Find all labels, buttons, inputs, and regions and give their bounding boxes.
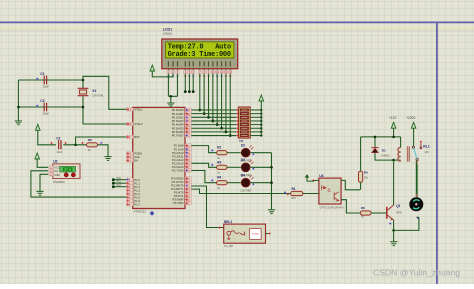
pin 19 XTAL1 of U1 <box>127 108 133 111</box>
LCD1 pin name ticks <box>168 61 169 66</box>
svg-text:P12: P12 <box>117 184 122 187</box>
pin marker BEL1 output <box>268 232 270 234</box>
svg-text:P3.4/T0: P3.4/T0 <box>174 191 184 195</box>
junction VCC rail row 0 <box>260 109 262 111</box>
resistor R4 <box>217 181 228 185</box>
pin 33 P0.6/AD6 of U1 <box>185 130 191 133</box>
svg-text:P2.3/A11: P2.3/A11 <box>172 154 184 158</box>
svg-text:P1.2: P1.2 <box>134 185 140 189</box>
svg-text:P0.0/AD0: P0.0/AD0 <box>172 108 184 112</box>
wire relay coil bottom <box>394 159 401 161</box>
ground <box>390 242 397 246</box>
wire LCD D3 to P0.3 <box>212 74 214 121</box>
pin marker R3 <box>211 164 213 166</box>
junction D0/P0.0 <box>198 109 201 112</box>
ground <box>104 157 111 161</box>
wire R6 to Q1 base <box>371 212 386 214</box>
ground <box>167 103 174 107</box>
svg-text:R3: R3 <box>217 160 221 164</box>
wire U2 GND pin to ground <box>40 174 48 191</box>
junction D2/P0.2 <box>207 116 210 119</box>
wire Q1 emitter down <box>393 220 395 231</box>
pin 3 VEE of LCD1 <box>176 70 179 73</box>
pin 6 P1.5 of U1 <box>127 196 133 199</box>
wire LCD D6 to P0.6 <box>225 74 227 132</box>
wire relay switch to motor <box>416 161 418 165</box>
svg-text:P0.3/AD3: P0.3/AD3 <box>172 119 184 123</box>
wire VCC to U2 VCC pin <box>37 159 48 167</box>
wire DQ net U2 to U1 P1.5 <box>31 171 127 197</box>
wire motor bottom to node <box>394 217 419 230</box>
wire U4 pin 1 stub <box>314 179 319 181</box>
motor top pin stub <box>415 194 417 198</box>
wire R3 to D3 <box>227 166 241 168</box>
svg-text:P2.0/A8: P2.0/A8 <box>174 144 184 148</box>
LCD display LCD1 LM016L <box>162 39 238 69</box>
svg-text:LM016L: LM016L <box>163 31 174 35</box>
svg-text:RST: RST <box>134 135 140 139</box>
power +5V terminal for U2 <box>35 153 40 159</box>
wire U5 pin to VCC rail row 4 <box>250 124 261 126</box>
wire +12V rail <box>361 136 401 138</box>
svg-text:10k: 10k <box>364 176 369 180</box>
pin marker C2 <box>36 105 38 107</box>
pin 11 P3.1/TXD of U1 <box>185 180 191 183</box>
svg-text:ALE: ALE <box>134 155 139 159</box>
wire C1 to crystal top net <box>18 79 83 81</box>
terminal P11 <box>115 182 127 184</box>
svg-text:U2: U2 <box>53 160 57 164</box>
wire D2 cathode to rail <box>251 152 272 154</box>
terminal P10 <box>115 179 127 181</box>
junction D1/P0.1 <box>203 112 206 115</box>
svg-text:R2: R2 <box>217 146 221 150</box>
pin 10 D3 of LCD1 <box>211 70 214 73</box>
ground <box>36 191 43 195</box>
pin 5 RW of LCD1 <box>188 70 191 73</box>
svg-text:P1.0: P1.0 <box>134 178 140 182</box>
svg-text:XTAL2: XTAL2 <box>134 122 143 126</box>
wire motor top to relay switch <box>415 161 417 196</box>
pin 27 P2.6/A14 of U1 <box>185 165 191 168</box>
svg-text:EA: EA <box>134 159 138 163</box>
svg-text:R8: R8 <box>88 138 92 142</box>
pin marker motor bottom <box>417 217 419 219</box>
wire LCD RS RW E stubs <box>185 74 193 92</box>
wire RST net to U1 pin 9 <box>76 137 127 145</box>
junction D1 cathode <box>374 136 377 139</box>
wire rail to R9 <box>360 137 362 171</box>
ground <box>268 210 275 214</box>
pin 11 D4 of LCD1 <box>216 70 219 73</box>
wire U1 P3.2 to buzzer BEL1 <box>191 186 223 228</box>
svg-text:P0.1/AD1: P0.1/AD1 <box>172 112 184 116</box>
pin 36 P0.3/AD3 of U1 <box>185 119 191 122</box>
transistor Q1 <box>386 207 388 219</box>
pin 4 RS of LCD1 <box>184 70 187 73</box>
svg-text:CRYSTAL: CRYSTAL <box>92 94 104 98</box>
origin marker U1 <box>150 211 155 216</box>
LED D2 <box>241 148 250 157</box>
svg-text:PL_NM: PL_NM <box>224 244 233 248</box>
ground <box>15 121 22 125</box>
pin 1 VSS of LCD1 <box>167 70 170 73</box>
pin 9 D2 of LCD1 <box>207 70 210 73</box>
pin marker C1 <box>36 78 38 80</box>
junction +12V rail <box>392 136 395 139</box>
svg-text:30pF: 30pF <box>43 111 50 115</box>
wire LCD D1 to P0.1 <box>203 74 205 114</box>
pin 18 XTAL2 of U1 <box>127 122 133 125</box>
wire U5 pin to VCC rail row 5 <box>250 127 261 129</box>
wire U1 P3.3 to R1 <box>191 189 290 193</box>
node E <box>192 90 195 93</box>
pin marker R4 <box>211 179 213 181</box>
temperature sensor U2 DS18B20 <box>53 164 80 179</box>
pin 16 P3.6/WR of U1 <box>185 198 191 201</box>
wire +12V to rail <box>393 128 395 137</box>
wire D4 cathode to rail <box>251 182 272 184</box>
pin 31 EA of U1 <box>127 159 133 162</box>
junction D4 rail <box>270 181 273 184</box>
wire P0.5 bus line <box>191 127 236 129</box>
svg-text:P1.4: P1.4 <box>134 192 140 196</box>
svg-text:P3.6/WR: P3.6/WR <box>172 198 183 202</box>
resistor R3 <box>217 165 228 169</box>
pin marker BEL1 input <box>218 226 220 228</box>
wire LCD VDD to +5V <box>152 71 173 77</box>
wire U1 port pin to R2 <box>191 146 216 153</box>
wire Q1 collector to coil node <box>393 160 395 205</box>
svg-text:30pF: 30pF <box>43 85 50 89</box>
wire R8 to ground <box>98 145 109 156</box>
junction D5/P0.5 <box>220 127 223 130</box>
wire U1 port pin to R4 <box>191 171 216 183</box>
power +5V terminal for U5 <box>259 95 264 101</box>
wire U5 pin to VCC rail row 3 <box>250 120 261 122</box>
wire R2 to D2 <box>227 152 241 154</box>
svg-text:U5: U5 <box>239 139 243 143</box>
svg-text:P3.5/T1: P3.5/T1 <box>174 194 184 198</box>
node RW <box>188 90 191 93</box>
pin 34 P0.5/AD5 of U1 <box>185 127 191 130</box>
pin 2 P1.1 of U1 <box>127 182 133 185</box>
svg-text:1N4001: 1N4001 <box>381 155 390 158</box>
svg-text:U4: U4 <box>319 174 323 178</box>
svg-text:27.0: 27.0 <box>64 169 71 172</box>
junction emitter/motor node <box>392 229 395 232</box>
power +12V terminal <box>391 122 396 128</box>
junction VCC rail row 1 <box>260 113 262 115</box>
crystal X1 <box>78 88 89 95</box>
wire crystal pins <box>82 80 84 107</box>
wire P0.6 bus line <box>191 131 236 133</box>
svg-text:D2: D2 <box>241 143 245 147</box>
junction D3 rail <box>270 166 273 169</box>
junction VCC rail row 3 <box>260 120 262 122</box>
wire LCD D2 to P0.2 <box>208 74 210 118</box>
junction crystal top <box>82 79 85 82</box>
motor fan load <box>409 197 423 211</box>
svg-text:P2.5/A13: P2.5/A13 <box>172 161 184 165</box>
wire VCC rail of U5 <box>260 110 262 136</box>
svg-text:P2.6/A14: P2.6/A14 <box>172 165 184 169</box>
svg-text:LED-RED: LED-RED <box>240 189 251 192</box>
wire motor bottom stub <box>416 216 419 218</box>
resistor pack U5 RESPACK-8 <box>238 107 250 138</box>
wire LCD D0 to P0.0 <box>199 74 201 110</box>
pin 13 P3.3/INT1 of U1 <box>185 187 191 190</box>
pin 12 P3.2/INT0 of U1 <box>185 184 191 187</box>
svg-text:SOUND: SOUND <box>252 234 259 236</box>
pin 37 P0.2/AD2 of U1 <box>185 116 191 119</box>
LED D4 <box>241 178 250 187</box>
resistor R2 <box>217 151 228 155</box>
optocoupler U4 <box>319 178 341 204</box>
svg-text:P3.0/RXD: P3.0/RXD <box>171 177 183 181</box>
capacitor C2 <box>44 103 46 112</box>
svg-text:CSDN @Yulin_zhuang: CSDN @Yulin_zhuang <box>373 268 460 278</box>
resistor R6 <box>360 211 371 215</box>
wire P0.3 bus line <box>191 120 236 122</box>
wire R4 to D4 <box>227 182 241 184</box>
wire D3 cathode to rail <box>251 166 272 168</box>
node RS <box>184 90 187 93</box>
svg-text:P0.6/AD6: P0.6/AD6 <box>172 130 184 134</box>
svg-text:C1: C1 <box>40 72 44 76</box>
junction VCC rail row 2 <box>260 116 262 118</box>
pin 2 VDD of LCD1 <box>171 70 174 73</box>
svg-text:P2.7/A15: P2.7/A15 <box>172 169 184 173</box>
resistor R8 <box>87 143 98 147</box>
svg-text:P2.2/A10: P2.2/A10 <box>172 151 184 155</box>
svg-text:P3.7/RD: P3.7/RD <box>173 201 183 205</box>
svg-text:10uF: 10uF <box>56 150 63 154</box>
wire LCD D5 to P0.5 <box>221 74 223 129</box>
svg-text:200: 200 <box>291 196 296 200</box>
wire U4 emitter to R6 <box>341 200 360 213</box>
wire to ground <box>170 96 172 102</box>
power +220V terminal <box>411 122 416 128</box>
pin marker D2 <box>252 153 254 155</box>
pin 9 RST of U1 <box>127 135 133 138</box>
svg-text:P2.4/A12: P2.4/A12 <box>172 158 184 162</box>
pin 23 P2.2/A10 of U1 <box>185 151 191 154</box>
svg-text:P3.2/INT0: P3.2/INT0 <box>171 184 184 188</box>
svg-text:C3: C3 <box>56 137 60 141</box>
wire U5 pin to VCC rail row 1 <box>250 113 261 115</box>
pin 6 E of LCD1 <box>192 70 195 73</box>
svg-text:VCC: VCC <box>54 167 59 170</box>
wire C3 to R8 <box>63 144 86 146</box>
wire P0.4 bus line <box>191 124 236 126</box>
capacitor C1 <box>44 76 46 85</box>
wire VCC rail to +5V terminal <box>260 101 262 110</box>
svg-text:R6: R6 <box>361 206 365 210</box>
wire node to ground <box>393 230 395 241</box>
wire P0.1 bus line <box>191 113 236 115</box>
wire LCD VSS and VEE to ground <box>168 74 177 97</box>
svg-text:Grade:3 Time:000: Grade:3 Time:000 <box>168 51 231 59</box>
pin 22 P2.1/A9 of U1 <box>185 147 191 150</box>
junction VCC rail row 5 <box>260 127 262 129</box>
pin 28 P2.7/A15 of U1 <box>185 169 191 172</box>
svg-text:12V: 12V <box>424 150 429 154</box>
wire LCD D4 to P0.4 <box>216 74 218 125</box>
junction D6/P0.6 <box>225 131 228 134</box>
wire XTAL1 net <box>83 76 127 109</box>
wire R1 to U4 LED <box>303 193 319 195</box>
svg-text:C2: C2 <box>40 99 44 103</box>
pin 25 P2.4/A12 of U1 <box>185 158 191 161</box>
pin marker D4 <box>252 183 254 185</box>
svg-text:P1.1: P1.1 <box>134 181 140 185</box>
wire D1 anode to coil node <box>375 153 394 160</box>
resistor R9 <box>359 171 363 182</box>
junction left rail C2 <box>17 106 20 109</box>
pin 8 D1 of LCD1 <box>203 70 206 73</box>
pin 3 P1.2 of U1 <box>127 185 133 188</box>
wire U1 port pin to R3 <box>191 163 216 167</box>
junction VSS/VEE ground node <box>170 95 173 98</box>
svg-text:P1.6: P1.6 <box>134 199 140 203</box>
svg-text:+12V: +12V <box>389 116 397 120</box>
wire R9 bottom <box>360 182 362 189</box>
diode D1 <box>371 147 378 149</box>
junction D3/P0.3 <box>211 120 214 123</box>
wire XTAL2 net <box>83 107 127 124</box>
svg-text:P1.5: P1.5 <box>134 195 140 199</box>
svg-text:P3.3/INT1: P3.3/INT1 <box>171 187 184 191</box>
svg-text:Q1: Q1 <box>396 204 400 208</box>
svg-text:RL1: RL1 <box>423 145 430 149</box>
pin markers reset circuit <box>50 142 52 144</box>
pin 1 P1.0 of U1 <box>127 178 133 181</box>
junction D4/P0.4 <box>216 123 219 126</box>
wire LED cathode rail to ground <box>271 153 273 210</box>
svg-text:P3.1/TXD: P3.1/TXD <box>172 180 184 184</box>
pin marker R2 <box>211 149 213 151</box>
svg-text:X1: X1 <box>92 89 96 93</box>
wire +220V to relay common <box>413 128 415 146</box>
pin 35 P0.4/AD4 of U1 <box>185 123 191 126</box>
wire rail to relay coil top <box>400 137 402 148</box>
svg-text:P2.1/A9: P2.1/A9 <box>174 147 184 151</box>
pin 17 P3.7/RD of U1 <box>185 201 191 204</box>
buzzer BEL1 <box>224 224 266 243</box>
pin marker Q1 emitter <box>389 223 391 225</box>
pin 5 P1.4 of U1 <box>127 192 133 195</box>
svg-text:+220V: +220V <box>406 116 416 120</box>
pin 15 P3.5/T1 of U1 <box>185 194 191 197</box>
svg-text:P0.2/AD2: P0.2/AD2 <box>172 115 184 119</box>
pin 13 D6 of LCD1 <box>224 70 227 73</box>
pin 26 P2.5/A13 of U1 <box>185 162 191 165</box>
svg-text:DS18B20: DS18B20 <box>53 180 65 184</box>
svg-text:R1: R1 <box>292 187 296 191</box>
capacitor C3 <box>59 140 61 149</box>
power +5V terminal for LCD VDD <box>150 65 155 71</box>
wire P0.2 bus line <box>191 116 236 118</box>
svg-text:P1.3: P1.3 <box>134 188 140 192</box>
svg-text:D1: D1 <box>382 149 386 153</box>
pin 8 P1.7 of U1 <box>127 203 133 206</box>
pin numbers U2 1-3 <box>49 166 53 169</box>
pin marker D3 <box>252 168 254 170</box>
junction crystal bottom <box>82 106 85 109</box>
svg-text:OPTOCOUPLER-NPN: OPTOCOUPLER-NPN <box>319 206 343 209</box>
wire LCD D7 to P0.7 <box>229 74 231 136</box>
wire U5 pin to VCC rail row 2 <box>250 116 261 118</box>
pin marker RL1 NO contact <box>420 141 422 143</box>
pin 10 P3.0/RXD of U1 <box>185 177 191 180</box>
svg-text:P0.5/AD5: P0.5/AD5 <box>172 126 184 130</box>
svg-text:P1.7: P1.7 <box>134 202 140 206</box>
wire U5 pin to VCC rail row 0 <box>250 109 261 111</box>
pin 4 P1.3 of U1 <box>127 189 133 192</box>
relay RL1 <box>398 147 401 161</box>
wire VCC to C3 <box>38 130 56 145</box>
junction D7/P0.7 <box>229 134 232 137</box>
junction VCC rail row 4 <box>260 123 262 125</box>
svg-text:R4: R4 <box>217 176 221 180</box>
svg-text:R9: R9 <box>364 170 368 174</box>
junction VCC rail row 6 <box>260 131 262 133</box>
pin 14 P3.4/T0 of U1 <box>185 191 191 194</box>
pin 30 ALE of U1 <box>127 155 133 158</box>
wire P0.0 bus line <box>191 109 236 111</box>
pin 14 D7 of LCD1 <box>229 70 232 73</box>
svg-text:BEL1: BEL1 <box>224 220 232 224</box>
pin 24 P2.3/A11 of U1 <box>185 155 191 158</box>
svg-text:NPN: NPN <box>396 210 402 214</box>
pin 29 PSEN of U1 <box>127 152 133 155</box>
svg-text:GND: GND <box>54 174 60 177</box>
resistor R1 <box>291 191 303 195</box>
junction RST node <box>74 144 77 147</box>
junction VCC rail row 7 <box>260 134 262 136</box>
svg-text:P0.7/AD7: P0.7/AD7 <box>172 134 184 138</box>
pin 32 P0.7/AD7 of U1 <box>185 134 191 137</box>
power terminal for U4 pin 1 <box>305 174 309 178</box>
junction coil bottom node <box>392 159 395 162</box>
svg-text:PSEN: PSEN <box>134 152 142 156</box>
wire P0.7 bus line <box>191 135 236 137</box>
svg-text:AT89C51: AT89C51 <box>134 210 147 214</box>
pin 21 P2.0/A8 of U1 <box>185 144 191 147</box>
svg-text:D4: D4 <box>241 173 245 177</box>
pin markers R1 input <box>284 191 286 193</box>
svg-text:DQ: DQ <box>54 170 58 173</box>
power +5V terminal for reset circuit <box>36 124 41 130</box>
wire U5 pin to VCC rail row 7 <box>250 135 261 137</box>
pin 38 P0.1/AD1 of U1 <box>185 112 191 115</box>
wire rail to D1 cathode <box>374 137 376 148</box>
svg-text:XTAL1: XTAL1 <box>134 107 143 111</box>
pin 7 D0 of LCD1 <box>198 70 201 73</box>
pin 7 P1.6 of U1 <box>127 199 133 202</box>
pin 39 P0.0/AD0 of U1 <box>185 108 191 111</box>
pin marker U4 pin 1 <box>312 179 314 181</box>
svg-text:D3: D3 <box>241 158 245 162</box>
wire C2 to crystal bottom net <box>18 106 83 108</box>
wire left rail C1/C2 to ground <box>17 80 19 121</box>
svg-text:P0.4/AD4: P0.4/AD4 <box>172 123 184 127</box>
wire U4 collector to R9 <box>341 180 360 189</box>
wire BEL1 output stub <box>266 233 269 235</box>
MCU U1 AT89C51 body <box>133 107 185 208</box>
LED D3 <box>241 163 250 172</box>
